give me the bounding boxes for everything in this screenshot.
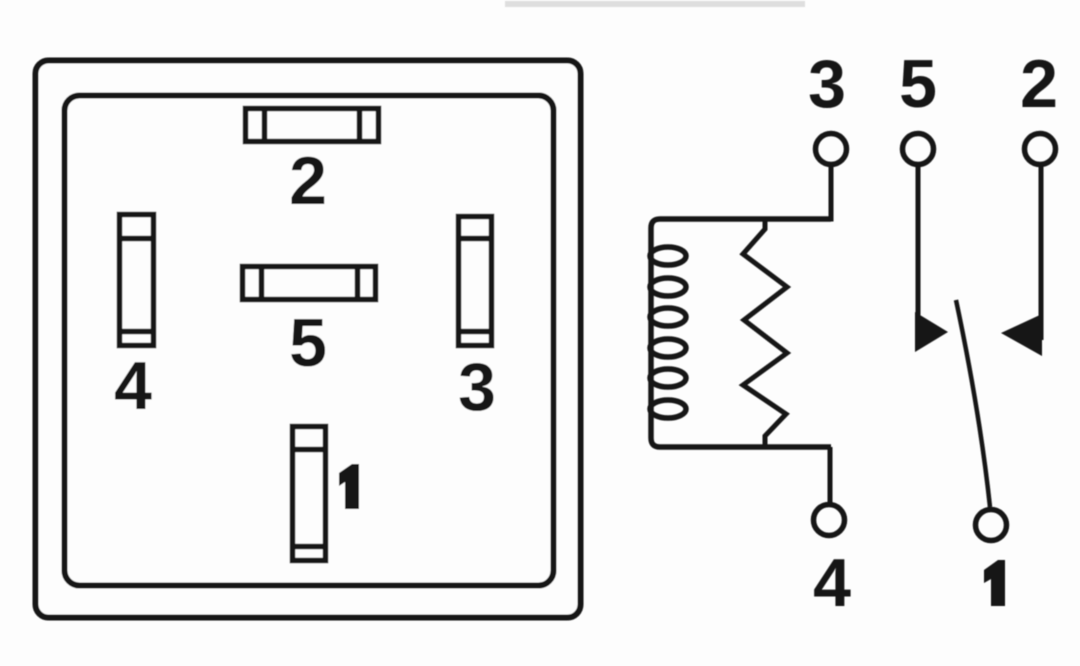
svg-text:4: 4 [114,348,152,424]
terminal 5 [903,134,934,165]
terminal 4 [814,505,845,536]
terminal 1 [976,510,1007,541]
wire terminal 2 to contact [1039,165,1044,340]
terminal 3 [816,134,847,165]
relay connector inner face [65,96,554,586]
pin 1 label [339,464,359,509]
svg-text:4: 4 [813,545,851,621]
terminal 1 label [984,560,1005,606]
fixed contact arrow 2 [1001,314,1042,356]
wire terminal 3 to coil [765,165,831,219]
svg-text:3: 3 [808,46,846,122]
wire terminal 5 to contact [916,165,921,340]
svg-text:2: 2 [1020,46,1058,122]
pin 4 slot [120,215,154,346]
svg-text:5: 5 [899,46,937,122]
pin 3 slot [459,217,492,346]
switch common moving arm [956,300,990,507]
wire coil to terminal 4 [828,447,833,504]
coil L1 [650,219,831,447]
pin 5 slot [243,267,376,300]
relay connector outer body [36,61,581,618]
svg-text:2: 2 [289,143,327,219]
svg-text:3: 3 [458,349,496,425]
resistor zigzag (parallel with coil) [743,219,787,447]
svg-text:5: 5 [289,305,327,381]
terminal 2 [1025,134,1056,165]
pin 1 slot [293,427,326,561]
pin 2 slot [246,109,379,142]
fixed contact arrow 5 [915,312,948,352]
